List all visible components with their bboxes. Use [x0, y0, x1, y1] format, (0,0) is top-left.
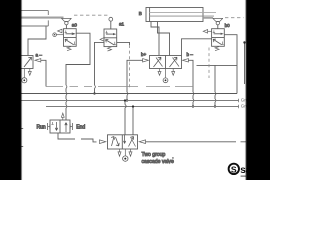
- wire b0 output right down and left: [224, 35, 237, 94]
- bus line L2: [21, 93, 237, 95]
- wire a1 supply left and down to bus L2: [95, 42, 105, 93]
- cascade valve 4/2: [108, 135, 138, 149]
- hop arc b+ wire over L2: [126, 92, 129, 95]
- tick end L4: [238, 105, 240, 109]
- junction dot cascade right wire on L4: [132, 105, 134, 107]
- svg-text:b+: b+: [141, 52, 147, 57]
- pillarbox band left: [0, 0, 22, 184]
- wire a1 output pilot dashed down: [129, 45, 131, 88]
- pilot arrow cascade left: [100, 140, 106, 144]
- junction dot supply right: [243, 41, 245, 43]
- hop arc cascade left wire over L4: [125, 105, 126, 108]
- junction dot cascade left wire on L3: [124, 99, 126, 101]
- tick end L3: [238, 99, 240, 103]
- valve a1 plunger pin actuator: [109, 17, 113, 29]
- cylinder B rod: [150, 13, 216, 17]
- bus line L3 group 1: [21, 100, 239, 102]
- wire cylinder B rod port to valve B: [158, 22, 170, 56]
- valve A main 5/2 (cut off by left band): [0, 56, 33, 69]
- wire Run/End output to cascade left pilot: [58, 133, 97, 142]
- button actuator Run: [48, 123, 50, 130]
- hop arc a1 wire over pilot dash line: [94, 85, 97, 88]
- air source below cascade valve: [123, 149, 128, 161]
- svg-text:b0: b0: [225, 23, 231, 28]
- svg-text:b –: b –: [187, 52, 194, 57]
- wire cascade right pilot long line: [146, 141, 247, 143]
- cylinder A piston rod: [21, 17, 64, 19]
- valve b0 roller marker actuator: [203, 18, 223, 29]
- button actuator End: [70, 123, 72, 130]
- junction dot a1 wire on L2: [93, 92, 95, 94]
- hop arcs on a0-RunEnd wire: [65, 85, 68, 108]
- wire a1 output right: [117, 42, 130, 45]
- svg-text:End: End: [76, 125, 85, 131]
- hop arcs b0 group drop: [214, 92, 217, 102]
- pilot line L1 dashed: [46, 86, 193, 88]
- wire branch to x215 drop: [197, 64, 238, 66]
- watermark tagline: [241, 175, 246, 177]
- small mark left of cascade text: [172, 157, 174, 159]
- wire b0 output left to b- pilot drop: [182, 39, 212, 56]
- junction dot b- drop on L4: [192, 105, 194, 107]
- stub wire left band edge 1: [21, 128, 23, 130]
- wire b0 group drop: [214, 65, 216, 106]
- valve a1 body 3/2: [104, 29, 117, 47]
- svg-text:a1: a1: [119, 22, 125, 27]
- distance rule dashed (cylinder B): [225, 17, 244, 19]
- exhaust triangle valve a0 left: [58, 29, 62, 33]
- bus line L4 group 2: [46, 106, 239, 108]
- wire valve B left pilot from L3 group1: [127, 60, 143, 100]
- supply vertical right: [244, 43, 246, 85]
- wire cylinder B cap port to valve B: [151, 22, 159, 56]
- pilot circle valve a0 left: [53, 33, 64, 37]
- svg-text:B: B: [139, 11, 142, 16]
- spring valve a1: [108, 47, 112, 51]
- junction dot b0 group drop on L4: [214, 105, 216, 107]
- pillarbox band right: [246, 0, 274, 184]
- pilot arrow cascade right: [139, 140, 145, 144]
- spring valve a0: [67, 47, 71, 51]
- wire valve B right pilot from group2 drop: [188, 60, 193, 106]
- svg-text:a –: a –: [36, 52, 43, 57]
- air source below valve B: [163, 69, 168, 83]
- exhaust triangle valve b0 left: [203, 30, 207, 34]
- exhaust triangle below valve A: [28, 69, 31, 76]
- stub wire left band edge 2: [21, 146, 23, 148]
- svg-text:Run: Run: [37, 125, 46, 131]
- svg-text:cascade valve: cascade valve: [142, 159, 174, 165]
- wire valve A right pilot down to dash line L1: [41, 60, 46, 86]
- wire cascade right port up to L4: [132, 107, 134, 135]
- cylinder B piston: [149, 8, 151, 22]
- cylinder B barrel: [146, 8, 203, 22]
- svg-text:S: S: [231, 164, 237, 174]
- svg-text:Two group: Two group: [142, 152, 166, 158]
- exhaust triangles below cascade valve: [118, 149, 132, 156]
- exhaust triangle above Run/End valve: [61, 113, 64, 120]
- wire cascade left port up to L3: [124, 101, 126, 135]
- pilot arrow valve B left: [143, 59, 149, 62]
- hop arcs b- pilot drop: [192, 92, 195, 102]
- Run/End valve 3/2 detent: [50, 120, 70, 133]
- watermark logo coin: [229, 164, 239, 175]
- wire b0 supply dashed down: [208, 48, 210, 79]
- valve B main 5/2: [150, 56, 182, 69]
- junction dot b+ wire on L3: [126, 99, 128, 101]
- valve b0 body 3/2: [212, 29, 225, 47]
- cylinder A barrel (cut off by left band): [21, 11, 48, 26]
- valve a0 body 3/2: [64, 29, 77, 47]
- exhaust triangles below valve B: [158, 69, 175, 76]
- exhaust triangle valve a1 left: [100, 38, 104, 41]
- distance rule dashed (cylinder A): [74, 14, 108, 16]
- spring valve b0: [215, 47, 219, 51]
- pilot arrow valve A right: [35, 59, 41, 62]
- wire a0 output right then down to Run/End valve: [66, 33, 90, 120]
- air source below valve A: [22, 69, 27, 83]
- valve a0 roller marker actuator: [61, 18, 71, 28]
- svg-text:a0: a0: [72, 23, 78, 28]
- pilot arrow valve B right: [183, 59, 189, 62]
- wire cylinder A rod-end port to valve A: [28, 26, 46, 55]
